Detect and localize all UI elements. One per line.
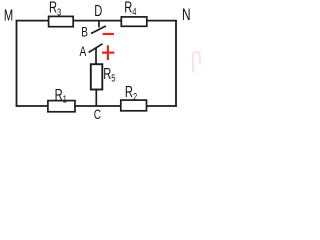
svg-text:D: D <box>94 2 102 19</box>
resistor R1 <box>48 101 75 112</box>
svg-text:M: M <box>4 7 13 24</box>
wire: left M to bottom <box>16 20 18 107</box>
wire: stub from terminal A down to R5 <box>95 48 97 65</box>
terminal B blade <box>91 26 106 34</box>
resistor R5 <box>91 64 103 89</box>
watermark <box>193 52 200 73</box>
resistor R2 <box>121 100 147 111</box>
wire: top M to N <box>16 20 177 22</box>
resistor R4 <box>121 17 147 26</box>
terminal A blade <box>89 44 103 53</box>
svg-text:B: B <box>81 24 88 40</box>
wire: stub from R5 down to C <box>95 90 97 107</box>
battery negative mark <box>103 33 114 35</box>
svg-text:C: C <box>94 107 101 122</box>
wire: bottom <box>16 105 177 107</box>
wire: stub from D down to terminal B <box>98 21 100 28</box>
svg-text:N: N <box>182 6 191 24</box>
svg-text:A: A <box>80 43 87 59</box>
resistor R3 <box>49 16 74 26</box>
wire: right N side vertical <box>175 20 177 107</box>
battery positive mark <box>102 45 114 60</box>
